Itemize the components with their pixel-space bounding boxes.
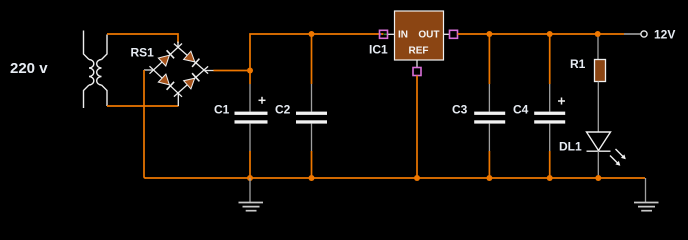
junction node C2 top bbox=[309, 31, 315, 37]
RS1 diode top-right bbox=[174, 44, 208, 74]
junction node C1 top bbox=[247, 68, 253, 74]
junction node R1 top bbox=[595, 31, 601, 37]
svg-text:REF: REF bbox=[409, 46, 429, 57]
junction node C3 bottom bbox=[486, 175, 492, 181]
transformer secondary winding bbox=[97, 35, 107, 107]
plus sign C1 bbox=[259, 97, 266, 104]
wire DL1 bottom lead bbox=[597, 151, 599, 178]
capacitor C3 bbox=[474, 112, 505, 124]
plus sign C4 bbox=[558, 98, 565, 105]
wire R1 to DL1 bbox=[597, 82, 599, 133]
wire C4 bottom lead bbox=[549, 124, 551, 152]
svg-text:RS1: RS1 bbox=[131, 46, 155, 60]
wire bridge left node to ground rail bbox=[144, 70, 146, 178]
svg-text:220 v: 220 v bbox=[10, 60, 48, 77]
pin OUT of IC1 bbox=[444, 30, 458, 38]
junction node C4 bottom bbox=[547, 175, 553, 181]
wire to left ground bbox=[249, 178, 251, 202]
IC1 regulator body bbox=[395, 11, 444, 60]
wire REF to ground rail bbox=[416, 76, 418, 179]
junction node DL1 bottom bbox=[595, 175, 601, 181]
wire terminal lead bbox=[624, 33, 641, 35]
wire bridge left stub bbox=[144, 69, 154, 71]
svg-text:12V: 12V bbox=[654, 28, 675, 42]
wire R1 top lead bbox=[597, 34, 599, 60]
wire secondary top to bridge top node bbox=[107, 34, 178, 43]
wire bridge right node to C1 junction bbox=[214, 70, 251, 72]
svg-text:IC1: IC1 bbox=[369, 43, 388, 57]
capacitor C1 bbox=[235, 112, 268, 124]
wire bridge right stub bbox=[204, 70, 214, 72]
capacitor C4 bbox=[534, 112, 565, 124]
wire IC1 OUT to 12V rail bbox=[458, 33, 625, 35]
ground left bbox=[239, 203, 264, 211]
wire secondary bottom to bridge bottom node bbox=[107, 105, 179, 107]
LED DL1 bbox=[587, 132, 611, 151]
pin REF of IC1 bbox=[413, 60, 421, 76]
svg-text:C4: C4 bbox=[513, 103, 529, 117]
terminal 12V bbox=[641, 31, 647, 37]
resistor R1 bbox=[595, 60, 606, 82]
wire C2 top lead bbox=[311, 34, 313, 84]
wire to right ground bbox=[645, 178, 647, 202]
wire bridge top lead bbox=[177, 42, 179, 48]
capacitor C2 bbox=[296, 112, 327, 124]
wire ground rail bbox=[145, 177, 645, 179]
wire C4 top lead bbox=[549, 34, 551, 84]
svg-text:IN: IN bbox=[398, 30, 408, 41]
wire C1 junction up and right to IC1 IN bbox=[250, 34, 384, 71]
junction node C3 top bbox=[486, 31, 492, 37]
wire C1 bottom lead bbox=[249, 124, 251, 152]
wire C2 bottom lead bbox=[311, 124, 313, 152]
transformer primary winding bbox=[84, 31, 94, 109]
pin IN end marks bbox=[379, 33, 387, 35]
junction node C2 bottom bbox=[309, 175, 315, 181]
svg-text:C2: C2 bbox=[275, 103, 291, 117]
wire C1 top lead bbox=[249, 71, 251, 85]
ground right bbox=[634, 203, 659, 211]
junction node C4 top bbox=[547, 31, 553, 37]
svg-text:DL1: DL1 bbox=[559, 140, 582, 154]
svg-text:R1: R1 bbox=[570, 57, 586, 71]
junction node C1 bottom bbox=[247, 175, 253, 181]
pin IN of IC1 bbox=[380, 30, 395, 38]
junction node REF bottom bbox=[414, 175, 420, 181]
svg-text:C3: C3 bbox=[452, 103, 468, 117]
wire C3 top lead bbox=[488, 34, 490, 84]
RS1 diode top-left bbox=[150, 44, 183, 74]
LED DL1 light arrows bbox=[610, 149, 626, 166]
wire C3 bottom lead bbox=[488, 124, 490, 152]
RS1 diode bottom-right bbox=[174, 66, 208, 96]
wire bridge bottom lead bbox=[177, 93, 179, 106]
svg-text:OUT: OUT bbox=[418, 30, 439, 41]
svg-text:C1: C1 bbox=[214, 103, 230, 117]
RS1 diode bottom-left bbox=[150, 66, 183, 97]
